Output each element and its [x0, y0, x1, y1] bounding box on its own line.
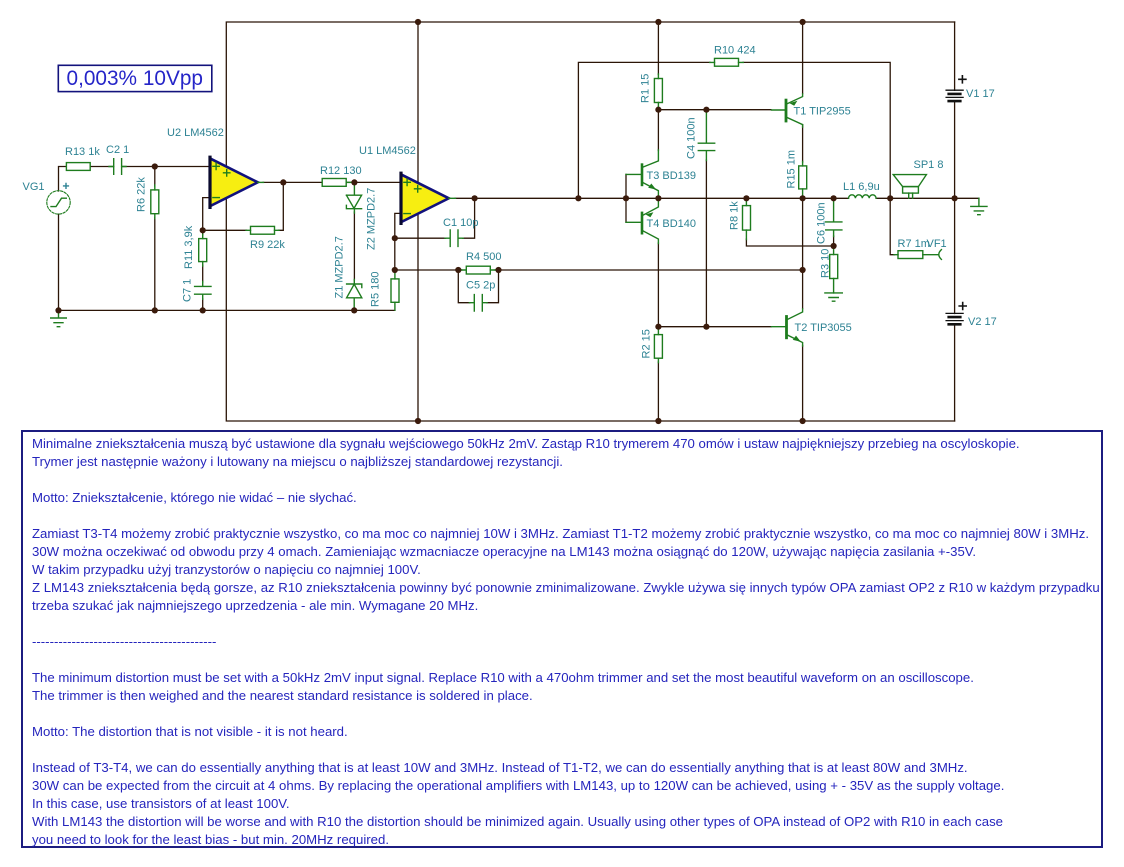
- junction dots ground rail: [55, 307, 61, 313]
- wire C1 left branch: [395, 237, 446, 239]
- wire supply loop top left bottom: [226, 22, 954, 421]
- svg-text:T1 TIP2955: T1 TIP2955: [794, 106, 851, 118]
- svg-text:R2 15: R2 15: [641, 329, 653, 358]
- voltmeter VF1 probe: [939, 250, 942, 260]
- wire V1 branch right side top: [954, 22, 956, 198]
- wire dot to R11 top: [202, 230, 204, 235]
- resistor R9: [246, 226, 279, 234]
- resistor R15: [799, 162, 807, 199]
- resistor R11: [199, 234, 207, 266]
- transistor T4: [626, 198, 658, 243]
- svg-text:R5 180: R5 180: [370, 272, 382, 307]
- resistor R13: [66, 163, 90, 171]
- svg-text:R3 10: R3 10: [820, 249, 832, 278]
- svg-text:VF1: VF1: [927, 238, 947, 250]
- wire T2 base: [658, 326, 771, 328]
- junction dot U2 output: [280, 179, 286, 185]
- svg-text:R4 500: R4 500: [466, 251, 501, 263]
- wire R4 left from feedback node: [395, 269, 462, 271]
- resistor R10: [710, 58, 744, 66]
- junction dots R4 C5: [455, 267, 461, 273]
- wire output rail after L1: [876, 197, 955, 199]
- zener Z1: [347, 280, 362, 311]
- wire R2 bottom to bottom rail: [657, 362, 659, 421]
- op-amp U1: [401, 173, 456, 223]
- svg-text:U2 LM4562: U2 LM4562: [167, 127, 224, 139]
- wire T2 emitter to bottom rail: [802, 346, 804, 422]
- wire T1 base: [658, 109, 771, 111]
- junction dots T1 base node: [655, 107, 661, 113]
- wire T1 base node down to T3 collector: [657, 110, 659, 151]
- svg-text:R15 1m: R15 1m: [786, 150, 798, 189]
- svg-text:C1 10p: C1 10p: [443, 217, 478, 229]
- svg-text:U1 LM4562: U1 LM4562: [359, 145, 416, 157]
- svg-text:C7 1: C7 1: [182, 279, 194, 302]
- wire R1 bottom to T1 base node: [657, 107, 659, 110]
- wire C5 right rise: [487, 270, 499, 303]
- capacitor C6: [826, 198, 842, 236]
- wire U2 inverting input feedback: [203, 198, 210, 231]
- source VG1: [47, 191, 70, 214]
- wire V2 branch right side bottom: [954, 198, 956, 421]
- wire V junction to right ground: [955, 197, 979, 199]
- svg-text:T2 TIP3055: T2 TIP3055: [795, 322, 852, 334]
- transistor T2: [772, 309, 803, 346]
- ground right of V junction: [971, 198, 987, 214]
- svg-text:R13 1k: R13 1k: [65, 146, 100, 158]
- svg-text:SP1 8: SP1 8: [914, 159, 944, 171]
- capacitor C1: [445, 230, 463, 246]
- junction dots top rail: [415, 19, 421, 25]
- resistor R2: [654, 327, 662, 363]
- resistor R12: [322, 179, 351, 187]
- wire U1 output rail: [455, 197, 849, 199]
- svg-text:Z2 MZPD2.7: Z2 MZPD2.7: [366, 188, 378, 250]
- resistor R7: [894, 251, 938, 259]
- wire R11 bottom to C7: [202, 265, 204, 282]
- wire T3 T4 base vertical: [625, 174, 627, 222]
- junction dots T2 base node: [655, 324, 661, 330]
- svg-text:R7 1m: R7 1m: [898, 238, 930, 250]
- wire R4 right to T2 collector line: [495, 269, 803, 271]
- svg-text:V1 17: V1 17: [966, 88, 995, 100]
- battery V1: [946, 76, 966, 101]
- transistor T3: [626, 150, 658, 198]
- wire U1 supply vertical: [417, 22, 419, 421]
- svg-text:VG1: VG1: [23, 181, 45, 193]
- svg-text:R6 22k: R6 22k: [136, 177, 148, 212]
- capacitor C5: [469, 295, 487, 311]
- speaker SP1: [893, 175, 926, 199]
- wire C4 lower vertical: [705, 160, 707, 327]
- svg-text:Z1 MZPD2.7: Z1 MZPD2.7: [334, 236, 346, 298]
- ground below VG1: [51, 310, 67, 326]
- wire U2 output to R12: [263, 181, 322, 183]
- junction dot R8-C6-R3 node: [831, 243, 837, 249]
- resistor R1: [654, 74, 662, 107]
- junction dot R12-Z2 node: [351, 179, 357, 185]
- junction dot R5 top: [392, 267, 398, 273]
- svg-text:R8 1k: R8 1k: [729, 201, 741, 230]
- junction dots output rail: [575, 195, 581, 201]
- svg-text:0,003% 10Vpp: 0,003% 10Vpp: [67, 67, 203, 90]
- svg-text:T4 BD140: T4 BD140: [647, 218, 697, 230]
- wire R12 to U1 plus input: [346, 181, 400, 183]
- wire U1 inverting input down: [395, 213, 401, 270]
- junction dot C1 left: [392, 235, 398, 241]
- svg-text:R1 15: R1 15: [640, 74, 652, 103]
- battery V2: [946, 303, 966, 325]
- resistor R4: [462, 266, 496, 274]
- wire R8 bottom elbow to C6 node: [746, 239, 833, 246]
- wire C1 right branch up to output: [463, 198, 475, 238]
- wire speaker node down to R7: [890, 198, 894, 254]
- wire zener chain Z2 to Z1: [353, 212, 355, 280]
- wire T1 emitter to top rail: [802, 22, 804, 94]
- zener Z2: [346, 184, 361, 214]
- svg-text:C5 2p: C5 2p: [466, 280, 495, 292]
- transistor T1: [772, 94, 803, 127]
- svg-text:C4 100n: C4 100n: [686, 117, 698, 159]
- annotation box 0,003% 10Vpp: [58, 65, 212, 91]
- junction dot R4 wire to T2 collector: [800, 267, 806, 273]
- wire VG1 bottom to ground rail: [58, 214, 60, 310]
- svg-text:C2 1: C2 1: [106, 144, 129, 156]
- plus mark VG1: [63, 183, 69, 189]
- wire C7 bottom to ground rail: [202, 299, 204, 311]
- svg-text:R10 424: R10 424: [714, 45, 756, 57]
- resistor R6: [151, 185, 159, 219]
- svg-text:R9 22k: R9 22k: [250, 239, 285, 251]
- wire node A dot to R6 top: [154, 167, 156, 187]
- svg-text:V2 17: V2 17: [968, 316, 997, 328]
- wire R13 to C2: [90, 166, 114, 168]
- op-amp U2: [210, 157, 264, 207]
- wire T1 collector to R15: [802, 125, 804, 162]
- wire C2 to U2 plus input: [122, 166, 210, 168]
- junction dots bottom rail: [415, 418, 421, 424]
- resistor R3: [830, 246, 838, 293]
- resistor R8: [743, 198, 751, 239]
- svg-text:R12 130: R12 130: [320, 165, 362, 177]
- wire C5 left drop: [458, 270, 470, 303]
- wire VG1 top corner to R13: [59, 167, 67, 192]
- wire C6 bottom stub: [833, 236, 835, 246]
- wire dot to R9 left: [203, 229, 247, 231]
- inductor L1: [849, 195, 877, 198]
- wire T2 collector line: [802, 198, 804, 308]
- wire top rail to R1: [657, 22, 659, 74]
- wire R10 right to speaker node: [743, 62, 890, 198]
- capacitor C4: [698, 110, 714, 161]
- svg-text:T3 BD139: T3 BD139: [647, 170, 697, 182]
- svg-text:L1 6,9u: L1 6,9u: [843, 181, 880, 193]
- ground below R3: [825, 293, 842, 301]
- wire T4 collector down: [657, 243, 659, 327]
- capacitor C7: [195, 281, 211, 299]
- wire ground rail: [59, 309, 395, 311]
- junction dot R9-R11 node: [200, 227, 206, 233]
- svg-text:C6 100n: C6 100n: [816, 202, 828, 244]
- wire R6 bottom to ground rail: [154, 218, 156, 311]
- capacitor C2: [109, 159, 126, 175]
- wire R9 right up to U2 output: [279, 182, 284, 230]
- resistor R5: [391, 270, 399, 310]
- junction dot U1 output: [472, 195, 478, 201]
- junction dot C2-R6 node: [152, 163, 158, 169]
- wire R10 left vertical from output rail: [578, 62, 710, 198]
- svg-text:R11 3,9k: R11 3,9k: [183, 225, 195, 269]
